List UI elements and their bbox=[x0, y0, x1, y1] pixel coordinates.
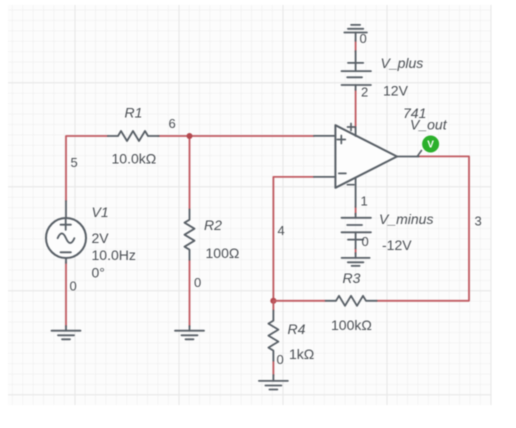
svg-text:5: 5 bbox=[71, 155, 78, 170]
wire net 5: V1 top to R1 left bbox=[66, 136, 108, 201]
ground under R2 bbox=[175, 326, 204, 339]
svg-text:0: 0 bbox=[360, 31, 367, 46]
svg-text:V_plus: V_plus bbox=[381, 55, 424, 71]
junction node 6 bbox=[187, 133, 193, 139]
resistor R3 bbox=[326, 296, 377, 306]
wire: R4 bottom to ground bbox=[272, 361, 274, 376]
ground under V1 bbox=[52, 326, 81, 339]
op-amp V- supply marker bbox=[347, 184, 354, 186]
svg-text:2V: 2V bbox=[92, 230, 110, 246]
svg-text:0: 0 bbox=[194, 275, 201, 290]
svg-text:R4: R4 bbox=[288, 321, 306, 337]
wire: top ground to V_plus battery bbox=[355, 40, 357, 52]
svg-text:1kΩ: 1kΩ bbox=[289, 346, 314, 362]
wire net 2: V_plus battery to op-amp V+ pin bbox=[355, 89, 357, 129]
junction node R3/R4 bbox=[270, 298, 276, 304]
ground top (above V_plus, inverted) bbox=[344, 25, 367, 41]
svg-text:V: V bbox=[427, 140, 434, 151]
resistor R4 bbox=[268, 311, 278, 361]
svg-text:10.0kΩ: 10.0kΩ bbox=[112, 151, 157, 167]
ground under R4 bbox=[259, 375, 288, 390]
wire: junction to R4 top bbox=[272, 301, 274, 311]
ground under V_minus bbox=[342, 253, 370, 266]
svg-text:1: 1 bbox=[361, 194, 368, 209]
AC source V1 bbox=[46, 201, 86, 263]
svg-text:100Ω: 100Ω bbox=[206, 245, 240, 261]
battery V_plus bbox=[342, 51, 371, 90]
battery V_minus bbox=[342, 214, 371, 249]
svg-text:0: 0 bbox=[70, 279, 77, 294]
op-amp input - marker bbox=[339, 172, 346, 174]
svg-text:0: 0 bbox=[362, 234, 369, 249]
wire: V_minus battery to bottom ground bbox=[355, 248, 357, 254]
wire net 4: op-amp inverting input down to junction bbox=[273, 177, 314, 301]
op-amp U1 741 bbox=[314, 125, 419, 207]
resistor R2 bbox=[185, 209, 195, 260]
svg-text:V_minus: V_minus bbox=[379, 211, 433, 227]
resistor R1 bbox=[108, 131, 159, 141]
wire net 0: V1 bottom to ground bbox=[65, 262, 67, 327]
probe V_out bbox=[417, 136, 439, 157]
wire net 6: R1 right to op-amp + input, branch to R2 bbox=[158, 136, 314, 209]
svg-text:0°: 0° bbox=[92, 265, 105, 281]
op-amp V+ supply marker bbox=[348, 124, 355, 131]
svg-text:R3: R3 bbox=[343, 270, 361, 286]
wire net 0: R2 bottom to ground bbox=[189, 260, 191, 327]
svg-text:-12V: -12V bbox=[382, 237, 412, 253]
svg-text:3: 3 bbox=[475, 214, 482, 229]
wire net 1: op-amp V- pin to V_minus battery bbox=[355, 207, 357, 215]
wire: junction to R3 left bbox=[273, 300, 325, 302]
svg-text:R1: R1 bbox=[125, 105, 143, 121]
svg-text:2: 2 bbox=[361, 85, 368, 100]
svg-text:12V: 12V bbox=[383, 83, 409, 99]
op-amp input + marker bbox=[337, 136, 345, 144]
svg-text:6: 6 bbox=[169, 116, 176, 131]
svg-text:V_out: V_out bbox=[410, 117, 448, 133]
svg-text:100kΩ: 100kΩ bbox=[331, 317, 372, 333]
svg-text:4: 4 bbox=[278, 223, 285, 238]
svg-text:0: 0 bbox=[277, 352, 284, 367]
svg-text:R2: R2 bbox=[204, 217, 222, 233]
wire net 3: R3 right up to op-amp output bbox=[377, 156, 469, 300]
svg-text:V1: V1 bbox=[92, 204, 109, 220]
svg-text:10.0Hz: 10.0Hz bbox=[92, 247, 136, 263]
